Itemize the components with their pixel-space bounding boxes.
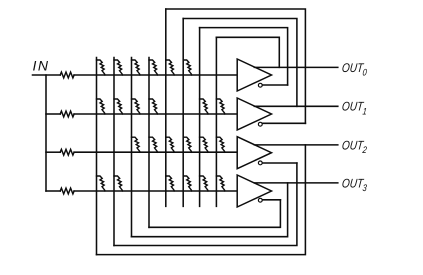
resistor row2-col4 [149, 99, 158, 114]
resistor row4 series [60, 188, 74, 194]
wire U1 inverted output [263, 84, 288, 86]
node OUT1 label [341, 101, 367, 117]
resistor row4-col8 [216, 176, 225, 191]
wire column 2 [113, 58, 115, 246]
wire row2 main [74, 113, 237, 115]
wire row3 main [74, 151, 237, 153]
resistor row2-col7 [200, 99, 209, 114]
resistor row4-col6 [183, 176, 192, 191]
resistor row2-col1 [97, 99, 106, 114]
wire column 6 [182, 19, 184, 207]
op-amp U3 triangle [237, 137, 271, 169]
wire column 7 [199, 28, 201, 207]
resistor row1-col5 [166, 60, 175, 75]
node OUT0 label [341, 62, 367, 78]
wire input bus vertical [45, 75, 47, 191]
svg-text:1: 1 [362, 105, 368, 116]
wire U2 output to OUT1 [254, 105, 337, 107]
op-amp U4 inverting bubble [258, 198, 262, 202]
resistor row3 series [60, 149, 74, 155]
resistor row1-col1 [97, 60, 106, 75]
wire U3 output to OUT2 [254, 144, 337, 146]
feedback loop bottom col2 from U3 inverted output [114, 163, 297, 246]
op-amp U4 triangle [237, 175, 271, 207]
wire row4 main [74, 190, 237, 192]
wire row1 main [74, 74, 237, 76]
resistor row2 series [60, 111, 74, 117]
wire U2 inverted output [263, 122, 306, 124]
svg-text:OUT: OUT [341, 177, 365, 190]
resistor row3-col4 [149, 137, 158, 152]
resistor row1-col3 [132, 60, 141, 75]
wire row4 left segment [46, 190, 60, 192]
resistor row3-col3 [132, 137, 141, 152]
feedback loop bottom col3 from U4 output [132, 183, 288, 237]
resistor row4-col1 [97, 176, 106, 191]
resistor row3-col6 [183, 137, 192, 152]
resistor row4-col2 [114, 176, 123, 191]
op-amp U2 inverting bubble [258, 122, 262, 126]
wire column 8 [215, 37, 217, 206]
wire U4 inverted output [263, 199, 281, 201]
op-amp U1 inverting bubble [258, 83, 262, 87]
feedback loop top col5 from U2 inverted output [166, 9, 306, 123]
resistor row1-col6 [183, 60, 192, 75]
op-amp U1 triangle [237, 59, 271, 91]
wire row2 left segment [46, 113, 60, 115]
op-amp U2 triangle [237, 98, 271, 130]
svg-text:OUT: OUT [341, 139, 365, 152]
resistor row1-col4 [149, 60, 158, 75]
node OUT2 label [341, 139, 367, 155]
wire column 4 [148, 58, 150, 228]
node OUT3 label [341, 177, 367, 193]
op-amp U3 inverting bubble [258, 161, 262, 165]
resistor row1-col2 [114, 60, 123, 75]
wire row1 input left segment [33, 74, 61, 76]
svg-text:OUT: OUT [341, 101, 365, 114]
feedback loop top col7 from U1 inverted output [200, 28, 288, 85]
wire column 3 [131, 58, 133, 237]
resistor row4-col5 [166, 176, 175, 191]
feedback loop top col6 from U2 output [183, 19, 297, 107]
svg-text:IN: IN [33, 58, 49, 74]
feedback loop bottom col1 from U3 output [97, 145, 306, 255]
resistor row2-col2 [114, 99, 123, 114]
feedback loop top col8 from U1 output [216, 37, 279, 67]
resistor row3-col8 [216, 137, 225, 152]
wire U3 inverted output [263, 162, 297, 164]
resistor row3-col7 [200, 137, 209, 152]
wire column 1 [96, 58, 98, 255]
svg-text:OUT: OUT [341, 62, 365, 75]
wire U1 output to OUT0 [254, 66, 337, 68]
svg-text:0: 0 [362, 67, 368, 78]
resistor row1 series [60, 72, 74, 78]
wire U4 output to OUT3 [254, 182, 337, 184]
svg-text:3: 3 [362, 182, 368, 193]
resistor row2-col8 [216, 99, 225, 114]
feedback loop bottom col4 from U4 inverted output [149, 200, 280, 228]
wire row3 left segment [46, 151, 60, 153]
resistor row3-col5 [166, 137, 175, 152]
wire column 5 [165, 9, 167, 206]
resistor row4-col7 [200, 176, 209, 191]
resistor row2-col3 [132, 99, 141, 114]
